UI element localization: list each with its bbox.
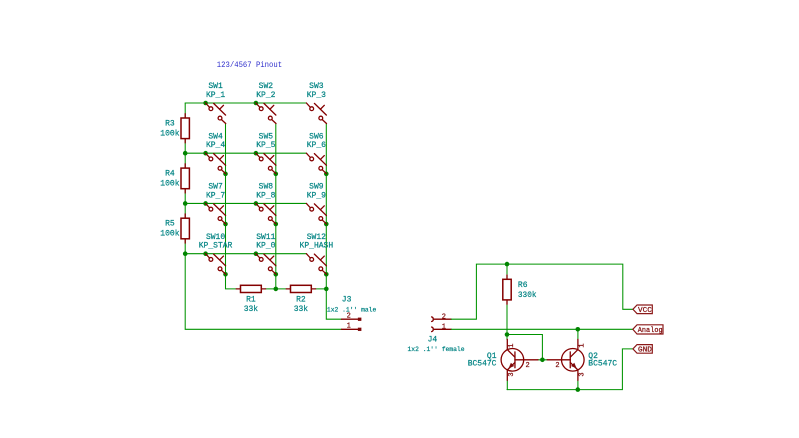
wire column 3 bbox=[326, 124, 341, 320]
junction row4 col1 bbox=[203, 251, 208, 256]
resistor R5 bbox=[181, 214, 189, 243]
svg-text:2: 2 bbox=[555, 362, 559, 370]
switch SW8 bbox=[256, 203, 276, 224]
switch SW6 bbox=[306, 153, 326, 174]
junction sw10 output bbox=[223, 272, 228, 277]
wire base branch bbox=[507, 335, 542, 360]
svg-text:KP_STAR: KP_STAR bbox=[199, 241, 233, 251]
switch SW5 bbox=[256, 153, 276, 174]
junction rail row2 bbox=[183, 151, 188, 156]
junction row4 col2 bbox=[254, 251, 259, 256]
junction R6 base branch bbox=[505, 332, 510, 337]
wire Q2 emitter down bbox=[577, 380, 579, 390]
junction sw9 output bbox=[324, 222, 329, 227]
junction sw11 output bbox=[274, 272, 279, 277]
svg-text:J3: J3 bbox=[342, 294, 352, 304]
svg-text:R6: R6 bbox=[518, 280, 528, 290]
junction R1-R2 node bbox=[274, 287, 279, 292]
switch SW4 bbox=[206, 153, 226, 174]
junction row1 col2 bbox=[254, 101, 259, 106]
svg-text:1: 1 bbox=[442, 323, 446, 331]
svg-text:123/4567 Pinout: 123/4567 Pinout bbox=[217, 60, 282, 70]
svg-text:KP_8: KP_8 bbox=[256, 190, 275, 200]
svg-text:R4: R4 bbox=[165, 169, 175, 179]
junction sw12 output bbox=[324, 272, 329, 277]
svg-text:J4: J4 bbox=[428, 335, 438, 345]
svg-text:1x2 .1'' female: 1x2 .1'' female bbox=[408, 346, 465, 353]
connector J4 pin 2 bbox=[432, 317, 434, 322]
svg-text:VCC: VCC bbox=[638, 307, 652, 315]
connector J3 pin 2 bbox=[342, 318, 359, 320]
transistor Q1 bbox=[501, 339, 538, 380]
svg-text:33k: 33k bbox=[294, 304, 308, 314]
switch SW10 bbox=[206, 254, 226, 275]
switch SW3 bbox=[306, 103, 326, 124]
resistor R1 bbox=[236, 285, 265, 292]
svg-text:KP_9: KP_9 bbox=[307, 190, 326, 200]
wire R6 vertical bbox=[506, 264, 508, 340]
junction row2 col1 bbox=[203, 151, 208, 156]
svg-text:KP_7: KP_7 bbox=[206, 190, 225, 200]
resistor R2 bbox=[286, 285, 315, 292]
svg-text:GND: GND bbox=[638, 347, 652, 355]
resistor R3 bbox=[181, 114, 189, 143]
svg-text:33k: 33k bbox=[244, 304, 258, 314]
svg-text:2: 2 bbox=[525, 362, 529, 370]
svg-text:KP_6: KP_6 bbox=[307, 140, 326, 150]
wire column 2 bbox=[275, 124, 277, 289]
wire column 1 bbox=[226, 124, 237, 289]
global label GND bbox=[633, 345, 652, 355]
global label VCC bbox=[633, 305, 652, 315]
wire row 3 bbox=[185, 202, 306, 204]
svg-text:KP_1: KP_1 bbox=[206, 90, 225, 100]
transistor Q2 bbox=[547, 339, 584, 380]
wire row 4 bbox=[185, 253, 306, 255]
svg-text:KP_4: KP_4 bbox=[206, 140, 225, 150]
svg-text:3: 3 bbox=[508, 372, 516, 376]
junction sw7 output bbox=[223, 222, 228, 227]
switch SW1 bbox=[206, 103, 226, 124]
wire row 2 bbox=[185, 152, 306, 154]
switch SW9 bbox=[306, 203, 326, 224]
svg-text:1: 1 bbox=[579, 343, 587, 347]
wire Q2 collector up bbox=[577, 329, 579, 339]
svg-text:1: 1 bbox=[347, 323, 351, 331]
switch SW11 bbox=[256, 254, 276, 275]
svg-text:1x2 .1'' male: 1x2 .1'' male bbox=[327, 306, 377, 313]
wire Q1 emitter down bbox=[506, 380, 508, 390]
resistor R6 bbox=[503, 275, 511, 304]
junction base rail bbox=[540, 358, 545, 363]
connector J3 pin 1 bbox=[342, 328, 359, 330]
wire bottom gnd rail bbox=[507, 349, 633, 390]
svg-text:KP_2: KP_2 bbox=[256, 90, 275, 100]
svg-text:3: 3 bbox=[579, 372, 587, 376]
svg-text:2: 2 bbox=[347, 313, 351, 321]
switch SW7 bbox=[206, 203, 226, 224]
wire left rail bbox=[185, 103, 341, 329]
svg-text:KP_5: KP_5 bbox=[256, 140, 275, 150]
svg-text:1: 1 bbox=[508, 344, 516, 348]
junction sw5 output bbox=[274, 172, 279, 177]
junction row3 col2 bbox=[254, 201, 259, 206]
junction sw4 output bbox=[223, 172, 228, 177]
svg-text:R5: R5 bbox=[165, 219, 175, 229]
svg-text:330k: 330k bbox=[518, 290, 537, 300]
svg-text:100k: 100k bbox=[160, 179, 179, 189]
junction row3 col1 bbox=[203, 201, 208, 206]
svg-text:KP_0: KP_0 bbox=[256, 241, 275, 251]
junction analog Q2 collector bbox=[576, 327, 581, 332]
junction rail row3 bbox=[183, 201, 188, 206]
resistor R4 bbox=[181, 164, 189, 193]
connector J4 pin 1 bbox=[432, 327, 434, 332]
wire J4 pin2 to top rail bbox=[451, 264, 633, 319]
svg-text:KP_HASH: KP_HASH bbox=[300, 241, 334, 251]
svg-text:100k: 100k bbox=[160, 129, 179, 139]
junction R2-col3 node bbox=[324, 287, 329, 292]
switch SW12 bbox=[306, 254, 326, 275]
junction top rail R6 bbox=[505, 262, 510, 267]
junction sw8 output bbox=[274, 222, 279, 227]
junction row2 col2 bbox=[254, 151, 259, 156]
wire analog net bbox=[451, 328, 633, 330]
svg-text:R3: R3 bbox=[165, 119, 175, 129]
junction row1 col1 bbox=[203, 101, 208, 106]
junction sw6 output bbox=[324, 172, 329, 177]
wire base rail bbox=[538, 359, 547, 361]
switch SW2 bbox=[256, 103, 276, 124]
svg-text:BC547C: BC547C bbox=[468, 358, 497, 368]
global label Analog bbox=[633, 325, 663, 335]
svg-text:2: 2 bbox=[442, 313, 446, 321]
wire row 1 bbox=[185, 102, 306, 104]
svg-text:Analog: Analog bbox=[638, 327, 663, 335]
junction rail row4 bbox=[183, 251, 188, 256]
svg-text:KP_3: KP_3 bbox=[307, 90, 326, 100]
wire resistor ladder row bbox=[266, 288, 327, 290]
svg-text:100k: 100k bbox=[160, 229, 179, 239]
svg-text:BC547C: BC547C bbox=[588, 358, 617, 368]
junction gnd Q2 emitter bbox=[576, 387, 581, 392]
